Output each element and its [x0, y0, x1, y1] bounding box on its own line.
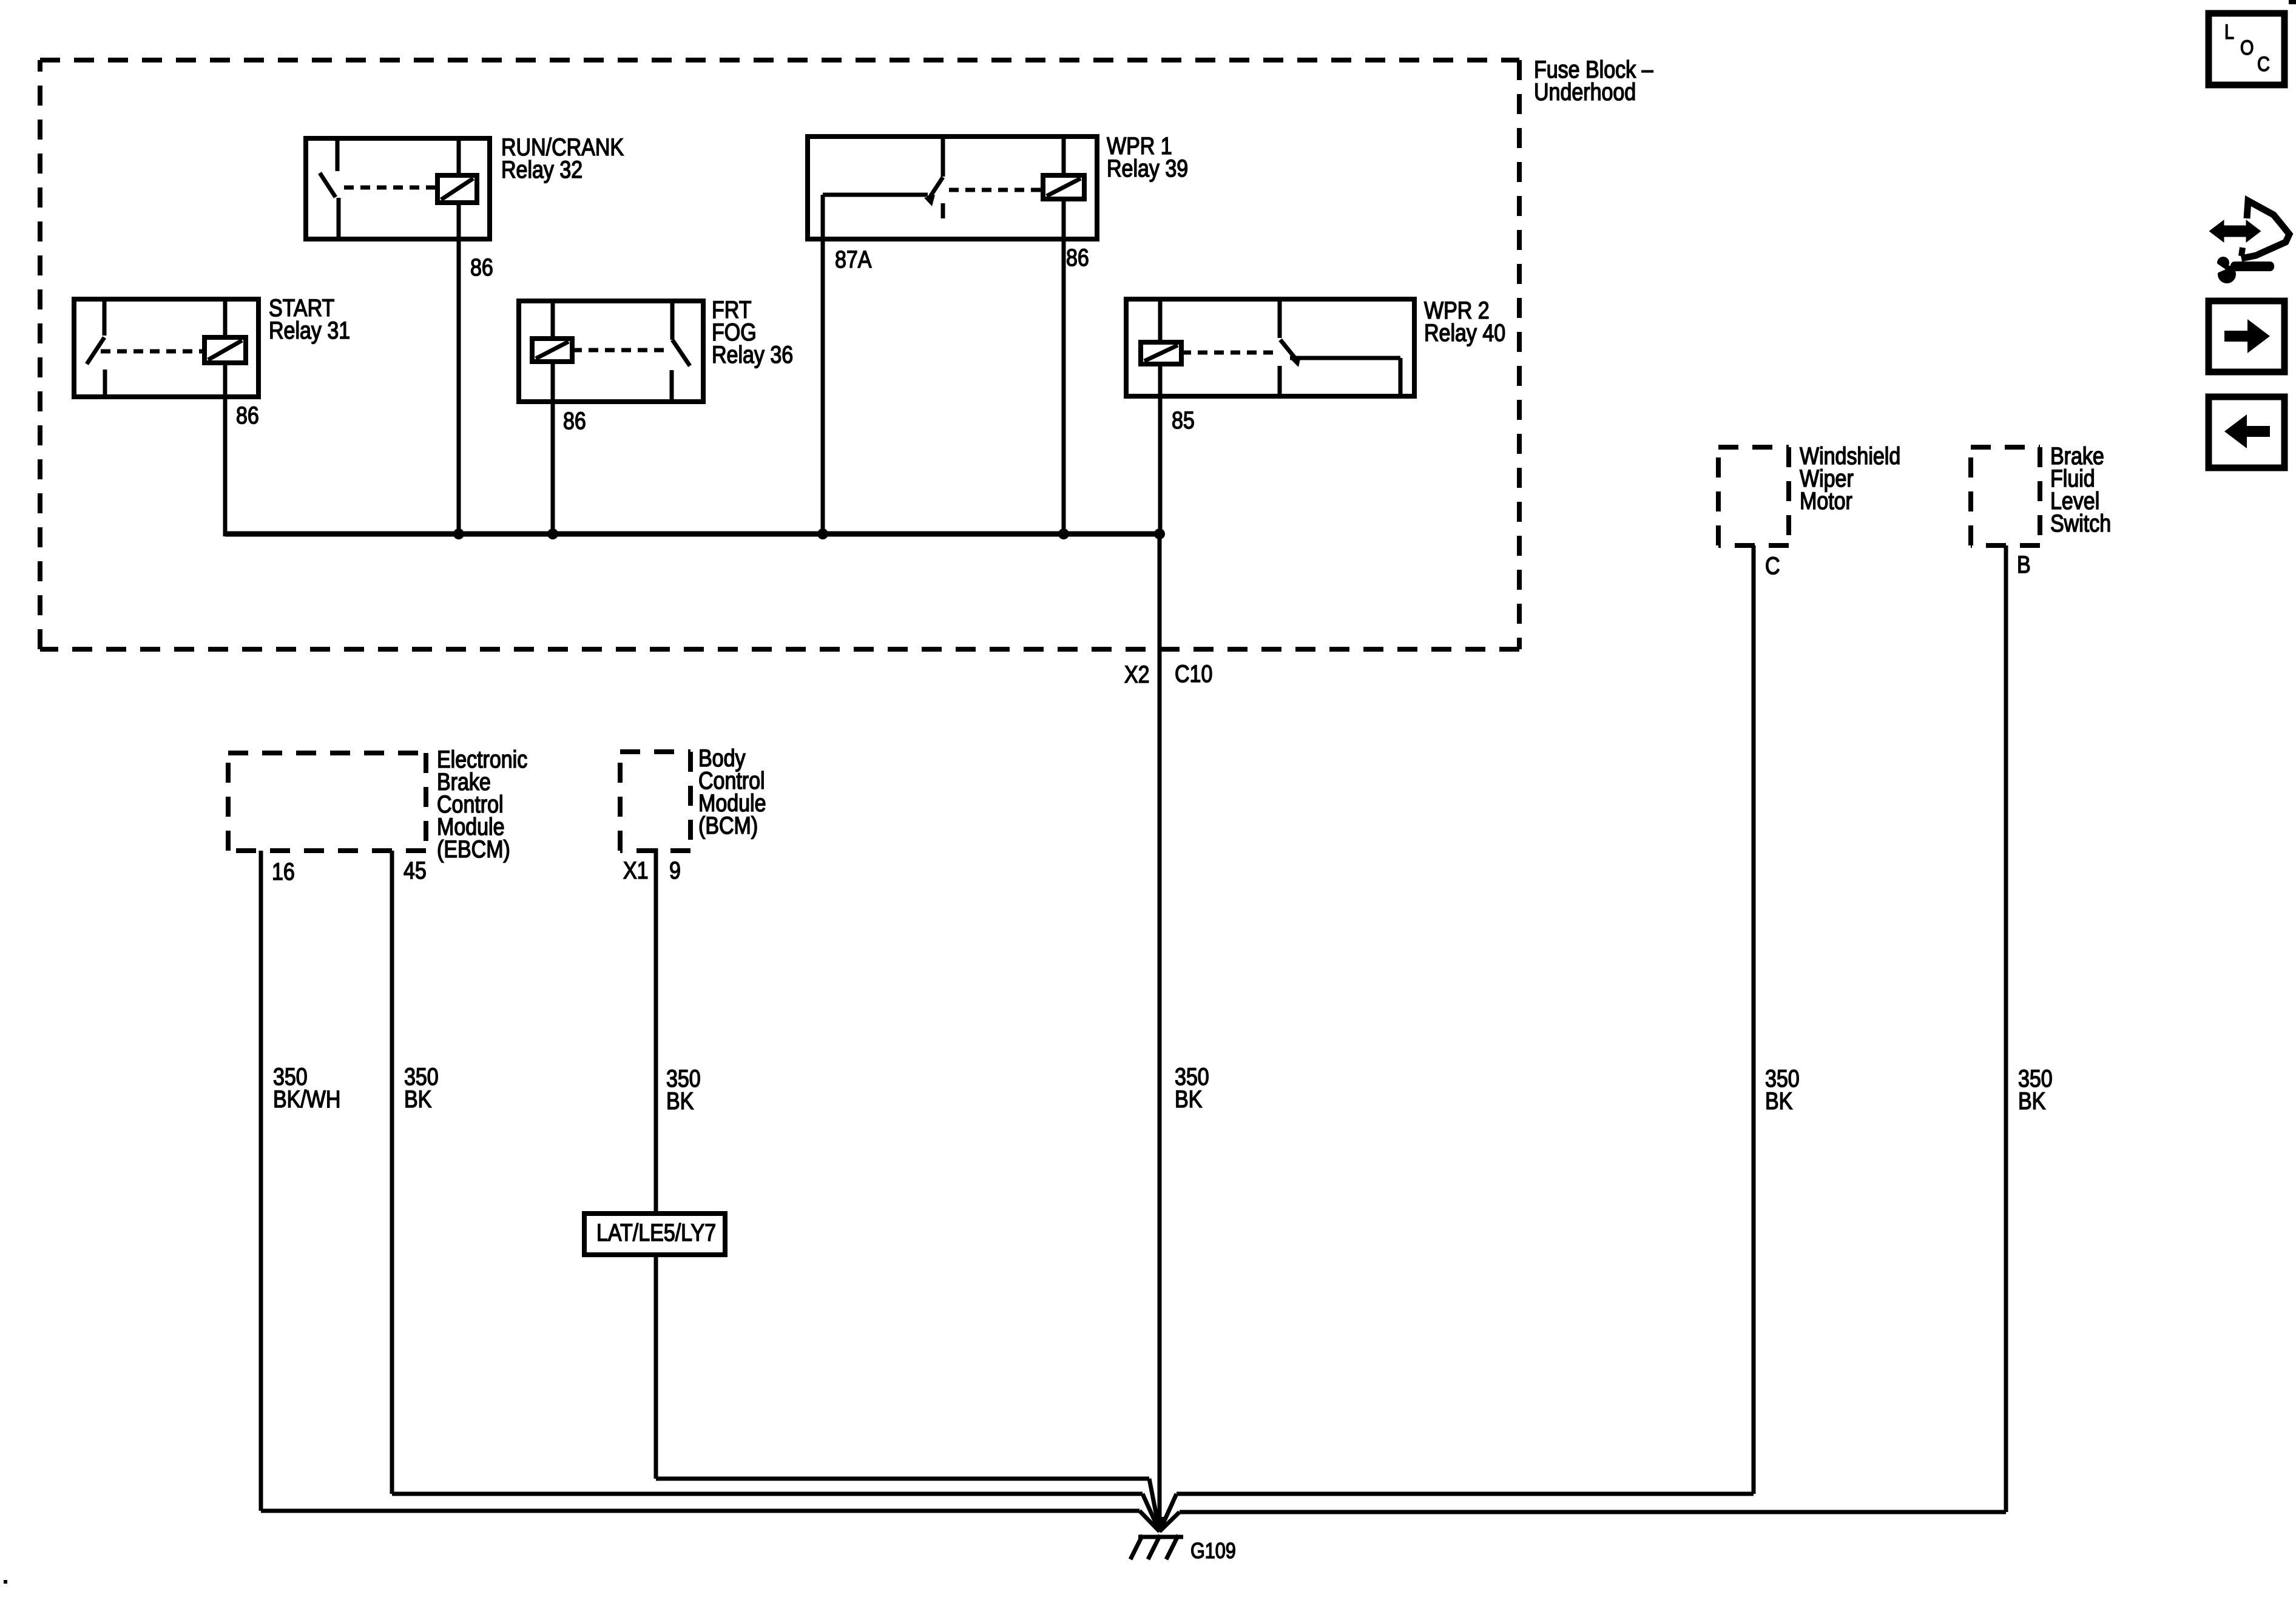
wire: WPR 2 relay pin 85 down to ground bus junction [1158, 396, 1163, 536]
svg-text:BK: BK [666, 1087, 694, 1114]
diagnostic icon (double arrow and wrench) [2207, 201, 2289, 283]
svg-text:86: 86 [563, 407, 586, 434]
relay WPR 1 Relay 39 coil lead [1062, 137, 1066, 239]
relay START Relay 31 switch [87, 299, 105, 397]
Brake Fluid Level Switch dashed box [1971, 447, 2040, 545]
junction: WPR1 87A on bus [817, 528, 828, 539]
svg-text:45: 45 [403, 856, 427, 883]
relay RUN/CRANK Relay 32 switch [320, 138, 339, 239]
wire: main 350 BK from bus through connector C10 to G109 [1158, 534, 1162, 1531]
svg-text:Relay 36: Relay 36 [712, 340, 793, 368]
svg-text:Relay 39: Relay 39 [1107, 154, 1188, 181]
junction: RUN/CRANK 86 on bus [453, 528, 464, 539]
navigation icon: arrow right box [2209, 301, 2284, 372]
wire: ground bus inside fuse block [225, 532, 1160, 537]
relay RUN/CRANK Relay 32 coil lead [457, 138, 461, 239]
wire: EBCM pin 16 350 BK/WH to ground [261, 851, 1160, 1531]
svg-text:9: 9 [669, 856, 681, 883]
svg-text:C: C [1765, 552, 1780, 579]
svg-text:86: 86 [236, 401, 259, 428]
relay START Relay 31 coil lead [223, 299, 228, 397]
wire: Brake Fluid Level Switch pin B 350 BK to ground [1160, 545, 2006, 1531]
wire: RUN/CRANK relay pin 86 down to ground bus [457, 239, 461, 534]
svg-text:Switch: Switch [2050, 509, 2111, 536]
relay FRT FOG Relay 36 coil lead [551, 301, 555, 402]
relay WPR 1 Relay 39 coil link dashed [949, 188, 1043, 192]
svg-text:86: 86 [1066, 243, 1089, 271]
relay WPR 1 Relay 39 internal 87A line [823, 193, 928, 197]
svg-text:Relay 32: Relay 32 [501, 155, 582, 183]
junction: WPR2 85 / main ground wire on bus [1154, 528, 1165, 539]
wire: START relay pin 86 down to ground bus [223, 397, 228, 536]
relay FRT FOG Relay 36 coil [532, 339, 572, 362]
svg-text:C10: C10 [1175, 660, 1212, 687]
svg-text:BK: BK [1765, 1087, 1793, 1114]
relay FRT FOG Relay 36 switch [672, 301, 690, 402]
relay RUN/CRANK Relay 32 box [306, 138, 490, 239]
relay FRT FOG Relay 36 coil link dashed [572, 348, 666, 353]
relay RUN/CRANK Relay 32 coil link dashed [344, 186, 437, 190]
relay WPR 2 Relay 40 internal contact line [1290, 358, 1400, 396]
arrow left glyph [2224, 414, 2270, 448]
svg-text:G109: G109 [1190, 1539, 1236, 1564]
stray mark top right [2289, 0, 2296, 4]
relay WPR 1 Relay 39 coil [1043, 175, 1084, 199]
fuse block underhood dashed enclosure [40, 60, 1519, 649]
relay START Relay 31 box [74, 299, 258, 397]
relay FRT FOG Relay 36 box [519, 301, 703, 402]
LOC reference icon box [2209, 13, 2284, 85]
ground G109 convergence arrowhead [1152, 1517, 1167, 1533]
svg-text:85: 85 [1172, 406, 1195, 433]
Body Control Module (BCM) dashed box [620, 752, 690, 851]
wire: BCM pin 9 350 BK upper segment [654, 848, 658, 1214]
junction: FRT FOG 86 on bus [547, 528, 558, 539]
relay WPR 2 Relay 40 coil link dashed [1181, 351, 1274, 355]
svg-text:B: B [2017, 550, 2031, 578]
relay WPR 2 Relay 40 coil [1141, 342, 1181, 364]
svg-text:BK/WH: BK/WH [273, 1085, 340, 1112]
arrow right glyph [2224, 319, 2270, 353]
junction: WPR1 86 on bus [1058, 528, 1069, 539]
Windshield Wiper Motor dashed box [1718, 447, 1789, 545]
svg-text:BK: BK [2018, 1087, 2046, 1114]
relay RUN/CRANK Relay 32 coil [437, 175, 477, 203]
Electronic Brake Control Module (EBCM) dashed box [228, 753, 426, 851]
svg-text:Underhood: Underhood [1534, 78, 1636, 105]
svg-text:L: L [2224, 20, 2234, 44]
svg-text:X1: X1 [623, 856, 649, 883]
svg-text:87A: 87A [835, 245, 872, 272]
relay WPR 2 Relay 40 switch [1280, 299, 1301, 396]
svg-text:86: 86 [470, 253, 493, 280]
svg-text:BK: BK [1175, 1085, 1203, 1112]
wire: BCM pin 9 350 BK lower segment to ground [656, 1255, 1160, 1531]
svg-text:Relay 31: Relay 31 [269, 316, 350, 343]
svg-text:O: O [2240, 36, 2254, 59]
navigation icon: arrow left box [2209, 397, 2284, 468]
wire: FRT FOG relay pin 86 down to ground bus [551, 402, 555, 534]
wire: WPR 1 relay pin 87A down to ground bus [821, 195, 825, 534]
wire: WPR 1 relay pin 86 down to ground bus [1062, 239, 1066, 534]
ground G109 symbol [1130, 1535, 1183, 1559]
relay WPR 1 Relay 39 box [808, 137, 1097, 239]
wire: Windshield Wiper Motor pin C 350 BK to ground [1160, 545, 1754, 1531]
svg-text:C: C [2257, 52, 2270, 76]
wire: EBCM pin 45 350 BK to ground [392, 851, 1160, 1531]
relay WPR 1 Relay 39 switch [924, 137, 943, 218]
svg-text:(EBCM): (EBCM) [437, 835, 510, 862]
svg-text:(BCM): (BCM) [698, 811, 758, 839]
svg-text:Motor: Motor [1800, 487, 1852, 514]
svg-text:16: 16 [272, 857, 295, 885]
svg-text:BK: BK [404, 1085, 432, 1112]
svg-text:X2: X2 [1124, 660, 1150, 687]
svg-text:LAT/LE5/LY7: LAT/LE5/LY7 [596, 1218, 716, 1246]
svg-text:Relay 40: Relay 40 [1424, 319, 1505, 346]
relay WPR 2 Relay 40 box [1126, 299, 1414, 396]
option box LAT/LE5/LY7 [584, 1214, 725, 1255]
relay START Relay 31 coil link dashed [101, 349, 204, 354]
stray mark bottom left [4, 1580, 7, 1584]
relay START Relay 31 coil [204, 337, 246, 363]
relay WPR 2 Relay 40 coil lead [1158, 299, 1163, 396]
